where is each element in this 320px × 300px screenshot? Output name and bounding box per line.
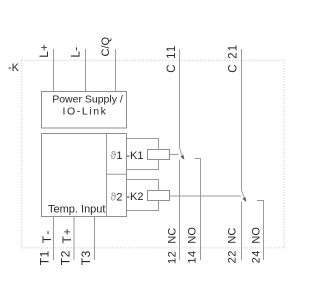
svg-text:NO: NO xyxy=(186,227,198,244)
svg-text:12: 12 xyxy=(166,251,178,264)
wire terminal L+ xyxy=(53,49,55,92)
svg-text:T+: T+ xyxy=(60,228,74,244)
divider line temp channels xyxy=(106,134,108,217)
relay coil K2 xyxy=(148,191,170,201)
divider line channel 1/2 xyxy=(107,173,127,175)
link K2 coil to contact xyxy=(170,195,241,197)
block U2 Temp. Input xyxy=(42,134,127,217)
link K1 coil to contact xyxy=(170,154,179,156)
device outline -K dashed boundary xyxy=(22,60,284,248)
svg-text:L+: L+ xyxy=(37,44,51,58)
svg-text:Temp. Input: Temp. Input xyxy=(48,204,105,216)
wire K2 coil return bottom xyxy=(127,201,159,211)
svg-text:-K1: -K1 xyxy=(126,150,143,162)
contact K2 moving blade xyxy=(242,190,247,202)
wire K1 coil feed top xyxy=(127,139,159,150)
svg-text:C/Q: C/Q xyxy=(100,37,112,57)
svg-text:-K: -K xyxy=(8,62,20,74)
wire terminal T3 xyxy=(94,217,96,261)
wire terminal T2 xyxy=(73,217,75,261)
svg-text:ϑ1: ϑ1 xyxy=(110,150,122,162)
wire terminal C 21 xyxy=(241,49,243,190)
svg-text:C 11: C 11 xyxy=(166,45,178,73)
contact K1 moving blade xyxy=(180,148,185,160)
block U1 Power Supply / IO-Link xyxy=(42,92,127,129)
svg-text:14: 14 xyxy=(186,250,198,263)
wire contact 12 NC xyxy=(179,160,181,261)
wire K1 coil return bottom xyxy=(127,160,159,170)
svg-text:T1: T1 xyxy=(38,250,52,265)
relay coil K1 xyxy=(148,150,170,160)
wire terminal C/Q xyxy=(115,49,117,92)
wire contact 24 NO xyxy=(257,201,264,261)
svg-text:T2: T2 xyxy=(58,250,72,265)
wire contact 14 NO xyxy=(195,159,201,261)
wire terminal T1 xyxy=(53,217,55,261)
svg-text:NC: NC xyxy=(227,228,239,244)
svg-text:NO: NO xyxy=(250,227,262,244)
svg-text:24: 24 xyxy=(250,250,262,263)
svg-text:Power Supply /: Power Supply / xyxy=(52,94,123,106)
svg-text:ϑ2: ϑ2 xyxy=(110,191,122,203)
svg-text:T-: T- xyxy=(40,229,54,244)
svg-text:IO-Link: IO-Link xyxy=(62,105,107,117)
svg-text:L-: L- xyxy=(69,47,83,58)
wire terminal C 11 xyxy=(179,49,181,148)
wire terminal L- xyxy=(85,49,87,92)
svg-text:NC: NC xyxy=(166,228,178,244)
svg-text:22: 22 xyxy=(227,250,239,263)
svg-text:-K2: -K2 xyxy=(126,191,143,203)
svg-text:C 21: C 21 xyxy=(227,44,239,73)
wire K2 coil feed top xyxy=(127,180,159,191)
svg-text:T3: T3 xyxy=(79,250,93,265)
wire contact 22 NC xyxy=(241,202,243,261)
